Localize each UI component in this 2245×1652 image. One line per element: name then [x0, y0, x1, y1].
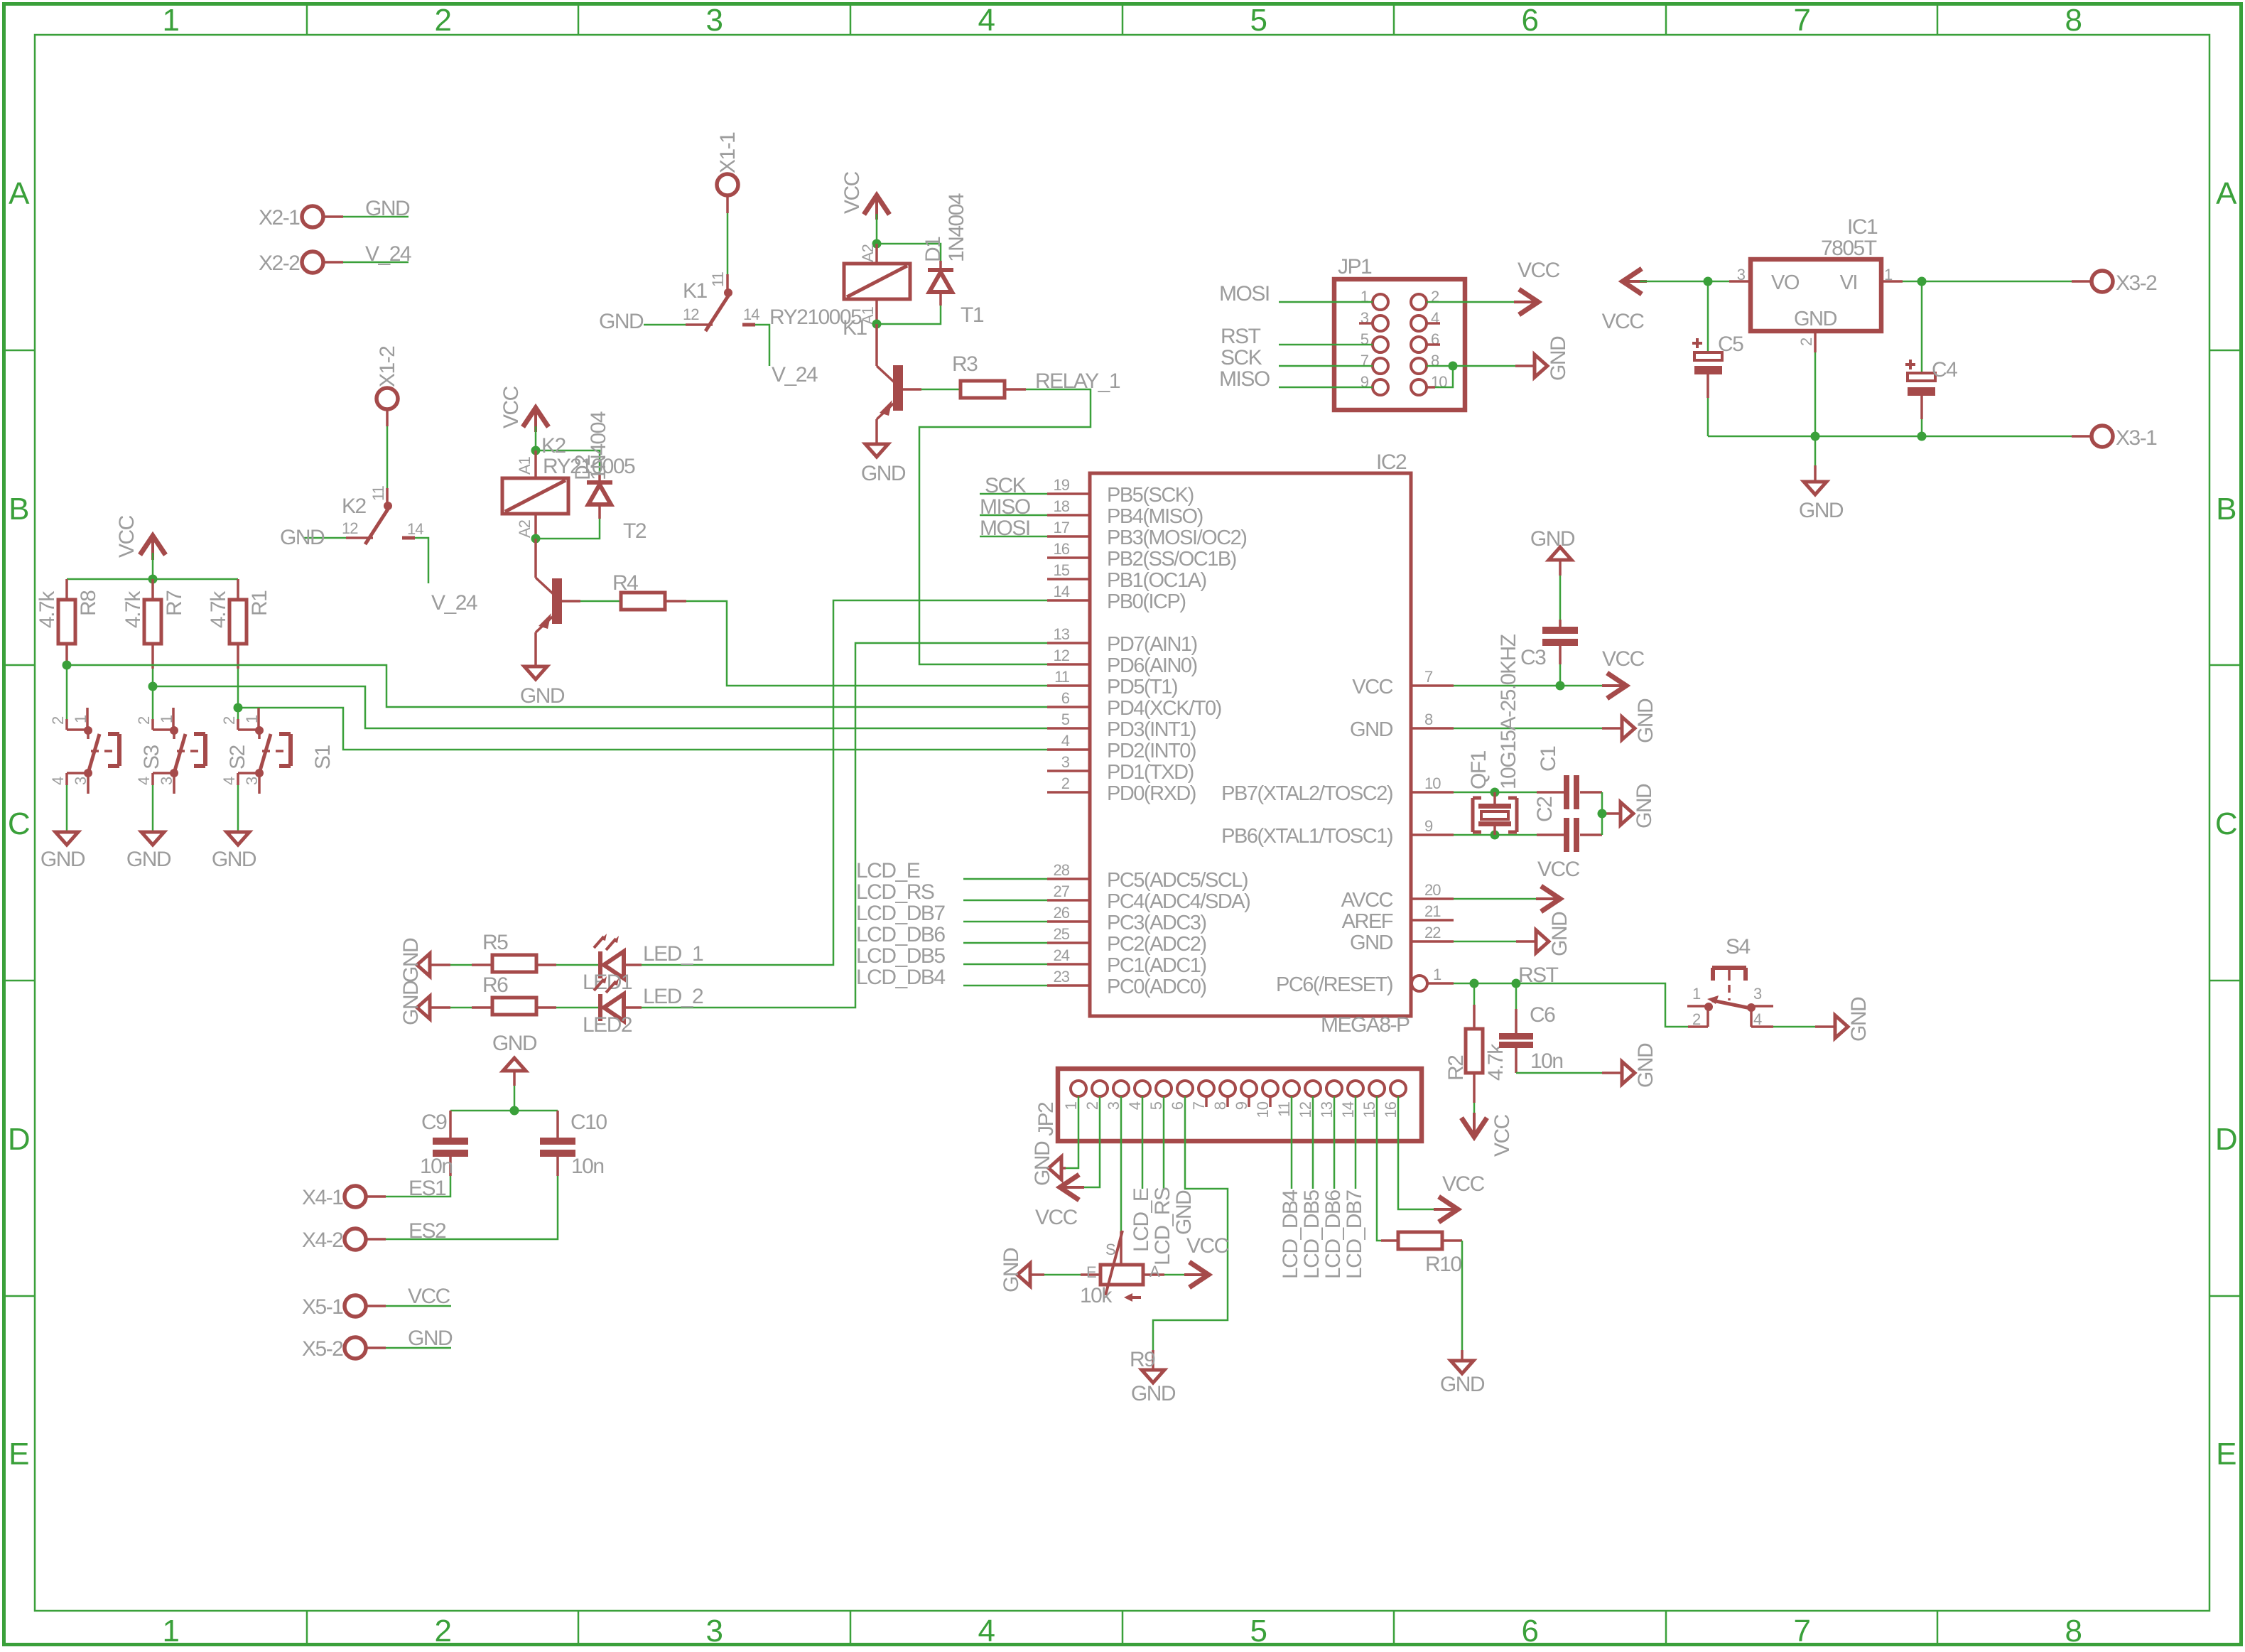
- ground GND below IC1: [1799, 465, 1844, 522]
- svg-text:RELAY_1: RELAY_1: [1035, 369, 1120, 393]
- svg-text:10n: 10n: [1530, 1049, 1563, 1073]
- net label MOSI (JP1): [1219, 282, 1270, 306]
- net label LED_1: [643, 942, 703, 966]
- name C4: [1932, 358, 1957, 382]
- svg-text:VCC: VCC: [115, 515, 139, 558]
- wire JP2 pin6 to GND: [1153, 1096, 1228, 1368]
- svg-text:LCD_RS: LCD_RS: [856, 880, 934, 904]
- resistor R2: [1466, 983, 1483, 1120]
- svg-text:28: 28: [1054, 861, 1070, 879]
- svg-text:27: 27: [1054, 882, 1070, 900]
- svg-text:LCD_DB5: LCD_DB5: [856, 944, 945, 968]
- led LED2: [594, 976, 642, 1021]
- wire MOSI to PB3: [980, 536, 1047, 538]
- name S1: [311, 745, 335, 770]
- pin label 2 (S4): [1692, 1010, 1701, 1028]
- svg-text:LCD_E: LCD_E: [1130, 1188, 1153, 1252]
- wire GND rail C9/C10: [450, 1086, 558, 1111]
- connector X1-2: [376, 346, 399, 426]
- svg-text:1: 1: [158, 715, 175, 723]
- net label LCD_DB5 (JP2): [1300, 1190, 1324, 1279]
- name LED1: [583, 971, 632, 994]
- svg-text:GND: GND: [1350, 932, 1393, 954]
- svg-text:A: A: [1149, 1263, 1160, 1280]
- name JP1: [1338, 255, 1372, 279]
- svg-text:K1: K1: [683, 279, 708, 303]
- svg-text:PB7(XTAL2/TOSC2): PB7(XTAL2/TOSC2): [1221, 782, 1392, 805]
- svg-text:R7: R7: [163, 590, 186, 616]
- svg-text:11: 11: [369, 485, 387, 501]
- svg-text:IC2: IC2: [1376, 450, 1407, 474]
- wire SCK to JP1 pin 7: [1279, 365, 1373, 367]
- pin label A (R9): [1149, 1263, 1160, 1280]
- svg-text:V_24: V_24: [365, 242, 411, 266]
- svg-text:A1: A1: [516, 456, 534, 475]
- pin label 3 (S4): [1753, 985, 1762, 1003]
- svg-text:ES2: ES2: [409, 1219, 446, 1243]
- pin label 4 (S2): [135, 777, 153, 785]
- svg-text:22: 22: [1424, 924, 1441, 941]
- net label LCD_E (IC2): [856, 859, 920, 882]
- wire GND to K1 pin 12: [644, 324, 686, 326]
- svg-text:1: 1: [1062, 1101, 1080, 1110]
- svg-text:1: 1: [1692, 985, 1701, 1003]
- svg-text:MEGA8-P: MEGA8-P: [1321, 1013, 1410, 1037]
- wire ES1: [386, 1176, 450, 1197]
- name C10: [570, 1111, 607, 1134]
- net label GND (K2-12): [280, 526, 325, 549]
- svg-text:14: 14: [407, 520, 423, 538]
- svg-text:13: 13: [1318, 1101, 1336, 1118]
- svg-text:6: 6: [1061, 689, 1070, 707]
- wire V_24 at X2-2: [343, 261, 409, 264]
- svg-text:AVCC: AVCC: [1341, 889, 1393, 912]
- svg-text:3: 3: [158, 777, 175, 785]
- net label LCD_DB7 (JP2): [1343, 1190, 1366, 1279]
- wire GND to K2 pin 12: [304, 537, 346, 539]
- svg-text:RY210005: RY210005: [769, 306, 862, 329]
- junction GND rail / IC1 GND: [1811, 432, 1820, 441]
- value 10n (C10): [571, 1155, 604, 1178]
- pin label 12 (K2): [342, 519, 358, 537]
- svg-text:GND: GND: [1031, 1141, 1054, 1186]
- svg-text:GND: GND: [365, 197, 410, 220]
- svg-text:LCD_E: LCD_E: [856, 859, 920, 882]
- svg-text:PB2(SS/OC1B): PB2(SS/OC1B): [1107, 548, 1236, 571]
- ground GND below R10: [1440, 1361, 1485, 1396]
- svg-text:X5-1: X5-1: [302, 1295, 343, 1319]
- svg-text:S1: S1: [311, 745, 335, 770]
- svg-text:GND: GND: [399, 938, 423, 983]
- name T1: [961, 303, 984, 327]
- ground GND below S2: [126, 832, 171, 871]
- name K1 (contact): [683, 279, 708, 303]
- svg-text:C4: C4: [1932, 358, 1957, 382]
- capacitor C10: [540, 1111, 575, 1176]
- wire SCK to PB5: [980, 493, 1047, 495]
- svg-text:VCC: VCC: [499, 386, 523, 428]
- ground GND arrow (S4): [1835, 997, 1871, 1042]
- junction VO/C5: [1704, 277, 1713, 286]
- pin label 2 (S3): [49, 716, 67, 725]
- svg-text:VCC: VCC: [1352, 676, 1392, 698]
- svg-text:X3-1: X3-1: [2116, 426, 2157, 450]
- svg-text:2: 2: [1083, 1101, 1101, 1110]
- led LED1: [594, 934, 642, 978]
- svg-text:5: 5: [1147, 1101, 1165, 1110]
- pin label 2 (IC1): [1797, 338, 1815, 346]
- svg-text:SCK: SCK: [985, 474, 1027, 497]
- ic IC1 7805T: [1729, 259, 1903, 352]
- svg-text:RST: RST: [1221, 325, 1261, 348]
- pin label 1 (S1): [243, 715, 261, 723]
- svg-text:5: 5: [1250, 1614, 1267, 1648]
- name R7: [163, 590, 186, 616]
- wire GND to R6: [430, 1006, 472, 1009]
- name JP2: [1034, 1102, 1058, 1136]
- name K1 (coil): [843, 316, 867, 340]
- wire LCD_RS to IC2: [963, 900, 1047, 902]
- svg-text:4: 4: [49, 777, 67, 785]
- svg-text:12: 12: [342, 519, 358, 537]
- svg-text:8: 8: [2065, 1614, 2082, 1648]
- value label R5: [482, 931, 508, 954]
- wire JP2 pin1 to GND: [1061, 1096, 1078, 1168]
- svg-text:MISO: MISO: [1219, 367, 1270, 391]
- stub JP2 pin 10: [1269, 1096, 1272, 1107]
- net label GND (X5-2): [408, 1327, 453, 1350]
- junction JP1 pin8/pin10: [1449, 362, 1458, 371]
- resistor R4: [621, 593, 686, 610]
- ground GND arrow (C6): [1622, 1043, 1657, 1088]
- wire JP1 pin 10 to GND: [1427, 366, 1453, 387]
- svg-text:A2: A2: [859, 244, 877, 262]
- ground GND above C3: [1530, 527, 1575, 576]
- name K2 (contact): [342, 495, 367, 518]
- svg-text:PD6(AIN0): PD6(AIN0): [1107, 654, 1197, 677]
- svg-text:PD3(INT1): PD3(INT1): [1107, 718, 1196, 741]
- svg-text:25: 25: [1054, 925, 1070, 943]
- svg-text:MISO: MISO: [980, 495, 1030, 519]
- connector X2-2: [259, 252, 343, 275]
- svg-text:12: 12: [1054, 647, 1070, 664]
- svg-text:4: 4: [1126, 1101, 1144, 1110]
- power VCC arrow (JP2 pin16): [1434, 1172, 1485, 1221]
- wire R9 A to VCC: [1164, 1274, 1191, 1276]
- connector JP1: [1334, 279, 1465, 410]
- svg-text:4: 4: [978, 3, 995, 38]
- junction K2 coil / D2 / T2: [531, 534, 541, 544]
- pin label 14 (K1): [743, 306, 759, 323]
- junction VCC rail: [148, 575, 158, 584]
- wire MISO to PB4: [980, 514, 1047, 517]
- connector X3-1: [2092, 426, 2157, 450]
- name C6: [1530, 1003, 1555, 1027]
- svg-text:4.7k: 4.7k: [121, 590, 145, 628]
- svg-text:D1: D1: [921, 237, 945, 262]
- value label R3: [952, 352, 978, 376]
- net label GND (JP2 pin6): [1172, 1190, 1196, 1235]
- connector X2-1: [259, 206, 343, 230]
- net label LCD_DB4 (IC2): [856, 966, 945, 989]
- svg-text:R8: R8: [77, 590, 100, 616]
- svg-text:GND: GND: [1131, 1382, 1176, 1405]
- svg-text:PB1(OC1A): PB1(OC1A): [1107, 569, 1206, 592]
- junction R7 bottom: [148, 682, 158, 691]
- wire JP2 pin3 to R9 S: [1120, 1096, 1122, 1265]
- pin label 1 (S2): [158, 715, 175, 723]
- svg-text:C10: C10: [570, 1111, 607, 1134]
- junction VCC/K1/D1: [872, 239, 882, 249]
- pin label 12 (K1): [683, 306, 699, 323]
- name S3: [140, 745, 163, 770]
- svg-text:1: 1: [163, 1614, 179, 1648]
- svg-text:7: 7: [1794, 3, 1810, 38]
- net label MISO (JP1): [1219, 367, 1270, 391]
- ground GND below T1: [861, 444, 906, 485]
- svg-text:10k: 10k: [1080, 1284, 1113, 1307]
- svg-text:R1: R1: [248, 590, 271, 616]
- value 10n (C6): [1530, 1049, 1563, 1073]
- svg-text:VCC: VCC: [1491, 1114, 1514, 1157]
- junction RST/C6: [1512, 979, 1521, 988]
- name C1: [1537, 746, 1560, 772]
- ic IC2 MEGA8-P: [1047, 473, 1454, 1016]
- svg-text:6: 6: [1169, 1101, 1186, 1110]
- svg-text:17: 17: [1054, 519, 1070, 536]
- svg-text:1: 1: [1433, 966, 1441, 983]
- svg-text:2: 2: [49, 716, 67, 725]
- svg-text:E: E: [9, 1437, 28, 1472]
- svg-text:AREF: AREF: [1342, 910, 1393, 933]
- svg-text:GND: GND: [1794, 308, 1837, 330]
- svg-text:21: 21: [1424, 902, 1441, 920]
- capacitor C1: [1537, 775, 1602, 809]
- resistor R8: [58, 579, 75, 669]
- net label RST (JP1): [1221, 325, 1261, 348]
- pin label 11 (K1): [709, 271, 727, 287]
- svg-text:C6: C6: [1530, 1003, 1555, 1027]
- svg-text:4: 4: [978, 1614, 995, 1648]
- relay contact K2: [346, 488, 415, 544]
- pin label 3 (S3): [72, 777, 90, 785]
- capacitor C4 (polarized): [1908, 281, 1935, 436]
- wire RST from PC6: [1454, 983, 1688, 1027]
- svg-text:A: A: [2216, 176, 2237, 211]
- junction QF1 top: [1491, 788, 1500, 797]
- ground GND arrow (LED1): [399, 938, 430, 983]
- svg-text:PD1(TXD): PD1(TXD): [1107, 761, 1194, 784]
- connector X4-1: [302, 1186, 386, 1209]
- net label LED_2: [643, 985, 703, 1008]
- svg-text:3: 3: [706, 3, 723, 38]
- pin label 4 (S1): [220, 777, 238, 785]
- svg-text:R3: R3: [952, 352, 978, 376]
- svg-text:3: 3: [1061, 753, 1070, 771]
- svg-text:GND: GND: [40, 848, 85, 871]
- svg-text:3: 3: [243, 777, 261, 785]
- wire R1 to IC2 PD2: [238, 708, 1047, 750]
- net label V_24 (X2-2): [365, 242, 411, 266]
- net label RELAY_1: [1035, 369, 1120, 393]
- junction QF1 bottom: [1491, 831, 1500, 840]
- net label LCD_RS (IC2): [856, 880, 934, 904]
- svg-text:A2: A2: [516, 519, 534, 538]
- ground GND below R9 area: [1131, 1370, 1176, 1405]
- pin label 11 (K2): [369, 485, 387, 501]
- wire D1 bottom to K1 coil bottom: [877, 306, 941, 324]
- svg-text:R6: R6: [482, 973, 508, 997]
- wire T2 emitter to GND: [534, 632, 537, 666]
- junction K1 coil / D1 / T1: [872, 320, 882, 329]
- svg-text:IC1: IC1: [1847, 215, 1878, 239]
- svg-text:C9: C9: [421, 1111, 447, 1134]
- value label R4: [612, 571, 638, 595]
- svg-text:19: 19: [1054, 476, 1070, 494]
- ground GND arrow (IC2 pin8): [1622, 698, 1657, 743]
- svg-text:3: 3: [1105, 1101, 1122, 1110]
- net label ES2: [409, 1219, 446, 1243]
- diode D2: [587, 473, 612, 519]
- resistor R5: [472, 955, 556, 972]
- wire VCC rail to R8/R7/R1: [67, 553, 238, 579]
- svg-text:GND: GND: [520, 684, 565, 708]
- resistor R7: [144, 579, 161, 686]
- wire X1-2 to K2 pin 11: [386, 426, 389, 488]
- wire VCC to IC1 VO: [1640, 281, 1729, 283]
- pin label 1 (S3): [72, 715, 90, 723]
- svg-text:X4-1: X4-1: [302, 1186, 343, 1209]
- wire GND to C3: [1559, 576, 1562, 620]
- ground GND arrow (C1/C2): [1621, 784, 1656, 828]
- svg-text:C3: C3: [1520, 646, 1546, 669]
- value 4.7k (R2): [1484, 1043, 1508, 1081]
- value 4.7k (R1): [207, 590, 230, 628]
- svg-text:GND: GND: [408, 1327, 453, 1350]
- name IC2: [1376, 450, 1407, 474]
- capacitor C2: [1537, 818, 1602, 852]
- svg-text:8: 8: [1424, 711, 1433, 728]
- svg-text:4: 4: [1061, 732, 1070, 750]
- svg-text:10: 10: [1424, 774, 1441, 792]
- wire ES2: [386, 1176, 558, 1239]
- svg-text:11: 11: [1275, 1101, 1293, 1117]
- svg-text:5: 5: [1250, 3, 1267, 38]
- svg-text:10G15A-25.0KHZ: 10G15A-25.0KHZ: [1497, 634, 1520, 789]
- plus sign C4: [1905, 360, 1915, 369]
- wire T2 base to R4: [580, 600, 621, 603]
- svg-text:X2-1: X2-1: [259, 206, 300, 230]
- svg-text:T1: T1: [961, 303, 984, 327]
- net label LCD_DB4 (JP2): [1279, 1190, 1302, 1279]
- svg-text:GND: GND: [399, 981, 423, 1025]
- svg-text:4: 4: [1753, 1010, 1762, 1028]
- switch S3: [67, 665, 119, 794]
- wire JP2 pin 14 stub: [1355, 1096, 1357, 1189]
- wire GND rail IC1: [1708, 436, 2091, 438]
- wire V_24 from K2 pin 14: [415, 538, 428, 583]
- svg-text:14: 14: [743, 306, 759, 323]
- junction R8 bottom: [63, 661, 72, 670]
- svg-text:GND: GND: [1000, 1248, 1023, 1292]
- svg-text:S2: S2: [226, 745, 249, 770]
- svg-text:V_24: V_24: [431, 591, 477, 615]
- ground GND below T2: [520, 666, 565, 708]
- power VCC arrow (R9): [1184, 1234, 1229, 1286]
- wire GND at X2-1: [343, 216, 409, 218]
- name D2: [571, 455, 595, 480]
- ground GND arrow (LED2): [399, 981, 430, 1025]
- transistor T1: [877, 324, 921, 419]
- svg-text:LCD_DB7: LCD_DB7: [1343, 1190, 1366, 1279]
- svg-text:23: 23: [1054, 968, 1070, 986]
- svg-text:10n: 10n: [420, 1155, 453, 1178]
- power VCC arrow (JP1): [1514, 259, 1560, 313]
- net label MISO: [980, 495, 1030, 519]
- svg-text:LCD_DB7: LCD_DB7: [856, 902, 945, 925]
- svg-text:2: 2: [435, 3, 451, 38]
- trimmer R9: [1081, 1231, 1164, 1302]
- svg-text:C: C: [2215, 806, 2237, 841]
- svg-text:GND: GND: [1633, 784, 1656, 828]
- wire C6 to GND: [1516, 1072, 1622, 1074]
- wire LCD_DB7 to IC2: [963, 921, 1047, 923]
- svg-text:D: D: [8, 1122, 29, 1157]
- wire R8 to IC2 PD4: [67, 665, 1047, 707]
- svg-text:PB5(SCK): PB5(SCK): [1107, 484, 1194, 507]
- wire S2 to GND: [152, 785, 154, 832]
- svg-text:24: 24: [1054, 946, 1070, 964]
- ground GND arrow (R9): [1000, 1248, 1030, 1292]
- transistor T2: [536, 539, 580, 632]
- svg-text:PB0(ICP): PB0(ICP): [1107, 590, 1185, 613]
- svg-text:JP2: JP2: [1034, 1102, 1058, 1136]
- svg-text:VCC: VCC: [1442, 1172, 1485, 1196]
- ground GND arrow (pin22): [1454, 912, 1571, 956]
- value RY210005 (K2): [543, 455, 635, 478]
- junction GND rail / C4: [1917, 432, 1927, 441]
- crystal QF1: [1473, 792, 1517, 835]
- wire LCD_DB5 to IC2: [963, 963, 1047, 966]
- net label VCC (X5-1): [408, 1285, 450, 1308]
- svg-text:LCD_DB4: LCD_DB4: [856, 966, 945, 989]
- net label LCD_DB5 (IC2): [856, 944, 945, 968]
- svg-text:GND: GND: [1634, 698, 1657, 743]
- svg-text:RST: RST: [1518, 963, 1559, 987]
- wire LCD_E to IC2: [963, 878, 1047, 880]
- ground GND below S1: [212, 832, 256, 871]
- wire AVCC pin20: [1454, 898, 1543, 900]
- name R9: [1130, 1348, 1155, 1371]
- wire R5 to LED1: [556, 964, 598, 966]
- svg-text:7: 7: [1794, 1614, 1810, 1648]
- svg-text:5: 5: [1061, 711, 1070, 728]
- junction VI/C4: [1917, 277, 1927, 286]
- wire R9 E to GND: [1030, 1274, 1081, 1276]
- wire MISO to JP1 pin 9: [1279, 387, 1373, 389]
- wire MOSI to JP1 pin 1: [1279, 301, 1373, 303]
- connector X5-1: [302, 1295, 386, 1319]
- svg-text:VCC: VCC: [840, 171, 864, 214]
- svg-text:15: 15: [1054, 561, 1070, 579]
- power VCC arrow below R2: [1463, 1113, 1514, 1157]
- power VCC arrow (IC2 pin7): [1602, 647, 1645, 697]
- svg-text:GND: GND: [280, 526, 325, 549]
- wire LCD_DB6 to IC2: [963, 942, 1047, 944]
- net label LCD_DB6 (IC2): [856, 923, 945, 946]
- svg-text:GND: GND: [1172, 1190, 1196, 1235]
- svg-text:11: 11: [709, 271, 727, 287]
